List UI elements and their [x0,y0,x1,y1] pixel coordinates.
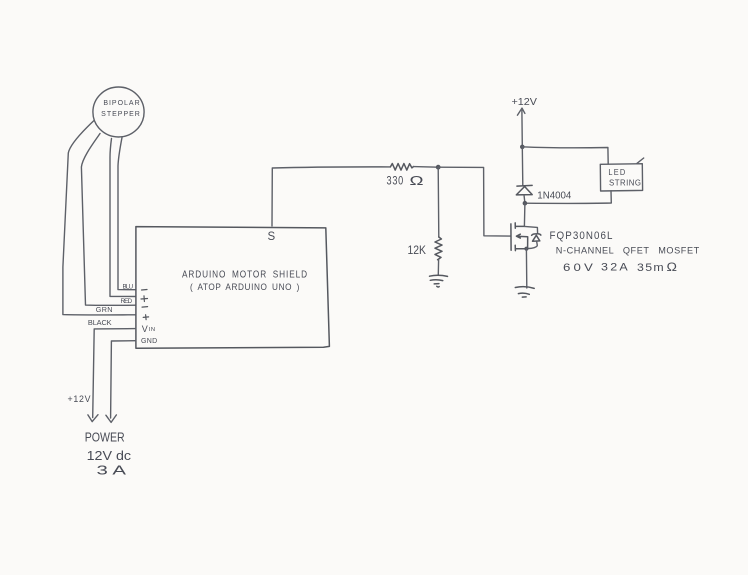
diode D1 1N4004 [516,147,532,203]
svg-text:FQP30N06L: FQP30N06L [550,230,614,242]
wire source of Q1 to ground [525,249,527,288]
svg-text:+12V: +12V [512,96,538,108]
svg-text:32A: 32A [601,262,630,274]
wire node C to drain of Q1 [523,203,526,226]
svg-text:BIPOLAR: BIPOLAR [103,100,140,107]
svg-text:60V: 60V [563,262,596,274]
node B (junction dot) [520,145,525,150]
LED string box [600,158,643,191]
svg-text:V: V [142,324,148,334]
wire node B to LED string box [522,147,608,164]
svg-text:1N4004: 1N4004 [537,190,571,202]
wire green (stepper to shield) [81,134,135,306]
wire node A to gate of Q1 [438,167,511,236]
ground (below Q1 source) [515,287,534,297]
resistor R2 12K [435,237,442,260]
svg-text:3 A: 3 A [97,463,127,477]
resistor R1 330 ohm [390,164,413,171]
stepper motor M1 (bipolar stepper) [93,87,144,137]
svg-text:S: S [268,231,276,243]
svg-text:35m: 35m [637,262,665,274]
pin minus 2 [142,306,148,309]
svg-text:Ω: Ω [410,173,424,188]
wire red (stepper to shield) [110,139,136,297]
svg-text:+12V: +12V [68,394,91,404]
ground (below R2) [430,275,448,287]
svg-text:12V dc: 12V dc [87,449,132,463]
svg-text:IN: IN [149,327,156,333]
wire +12V down to node B [521,111,523,147]
svg-text:LED: LED [608,167,626,177]
svg-text:POWER: POWER [85,431,125,445]
svg-text:Ω: Ω [667,262,678,274]
node A (junction dot) [436,165,441,170]
power arrow +12V [517,108,525,115]
wire S to resistor R1 [272,167,390,226]
wire R1 to node A [414,166,439,169]
svg-text:BLACK: BLACK [88,318,113,327]
svg-text:330: 330 [387,174,405,188]
pin plus 1 [141,296,148,302]
svg-text:N-CHANNEL QFET MOSFET: N-CHANNEL QFET MOSFET [556,245,700,256]
svg-text:STRING: STRING [609,179,642,188]
node C (junction dot) [523,201,528,206]
pin plus 2 [143,315,148,320]
transistor Q1 FQP30N06L (N-MOSFET) [511,223,541,251]
svg-text:BLU: BLU [123,284,134,291]
wire node A down to R2 [437,167,440,237]
svg-text:GND: GND [141,338,158,345]
pin minus 1 [142,289,148,292]
wire blue (stepper to shield) [118,138,136,290]
arduino motor shield U1 (box) [136,227,330,349]
wire GND to power supply (with arrow) [111,341,136,418]
wire LED string return to node C [525,191,611,204]
svg-text:STEPPER: STEPPER [101,111,141,118]
wire black (stepper to shield) [63,121,136,315]
wire VIN to power supply (with arrow) [93,329,136,418]
wire R2 to ground [437,260,439,275]
svg-text:12K: 12K [408,243,427,257]
svg-text:ARDUINO MOTOR SHIELD: ARDUINO MOTOR SHIELD [182,270,308,281]
svg-text:( ATOP ARDUINO UNO ): ( ATOP ARDUINO UNO ) [190,282,300,293]
svg-text:GRN: GRN [96,305,114,314]
svg-text:RED: RED [121,298,133,305]
